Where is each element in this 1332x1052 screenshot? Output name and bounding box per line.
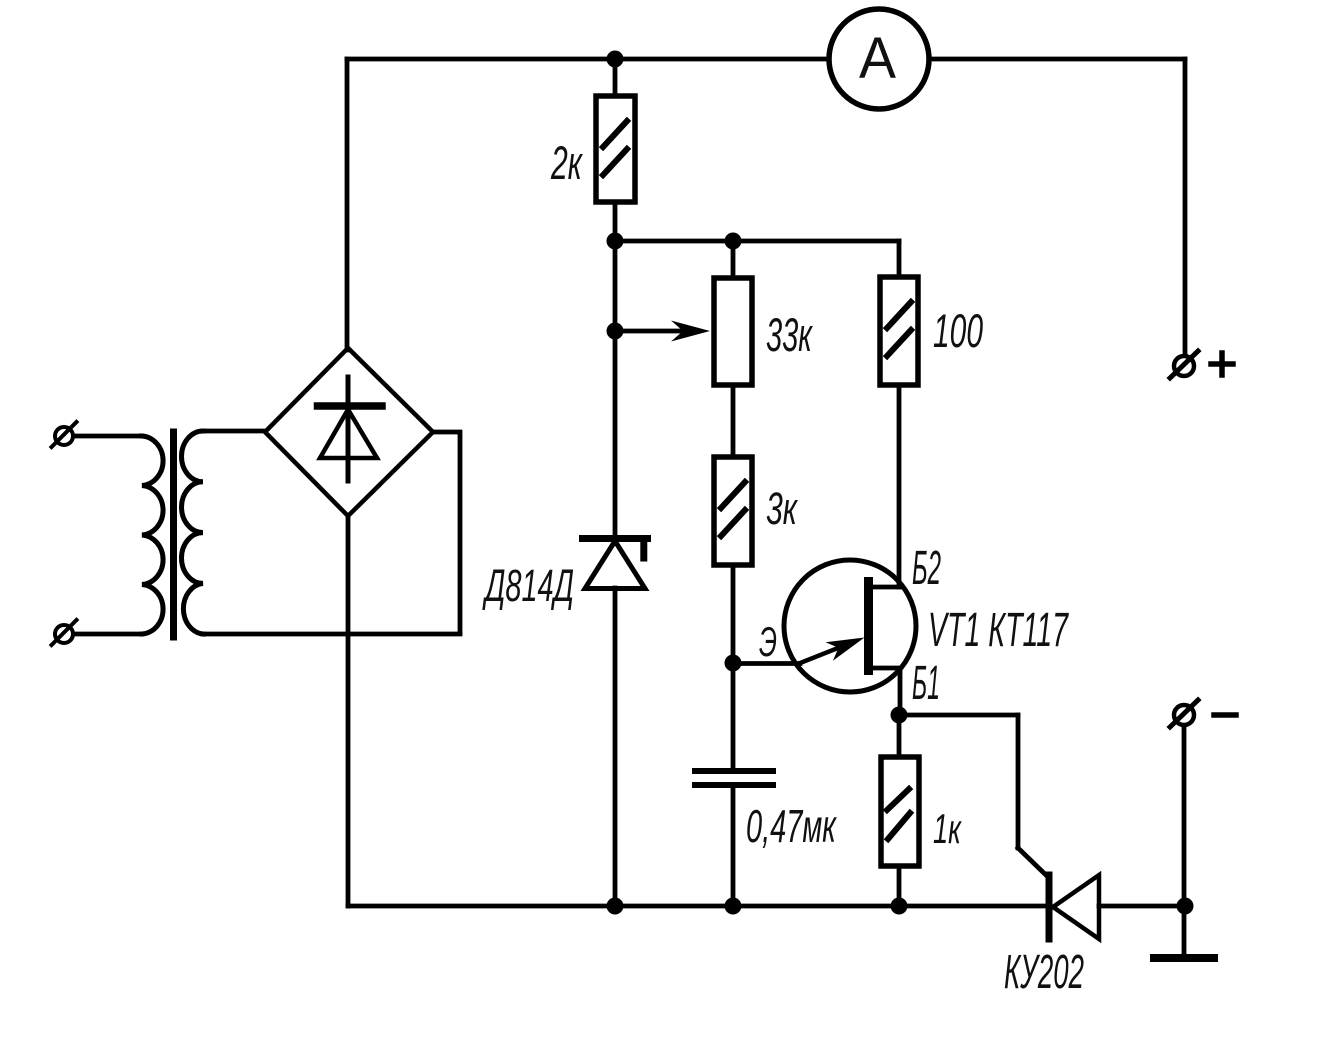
thyristor VS КУ202 <box>1049 875 1099 939</box>
capacitor C 0,47мк <box>695 663 773 906</box>
wire gate horizontal <box>899 713 1018 718</box>
wire top rail <box>347 57 1185 62</box>
wire secondary bottom <box>203 632 460 637</box>
transistor B1 lead <box>872 668 900 715</box>
svg-text:33к: 33к <box>766 308 813 361</box>
transformer T primary terminal top <box>52 422 77 447</box>
svg-text:VT1 КТ117: VT1 КТ117 <box>928 604 1069 657</box>
wire emitter horizontal <box>733 661 800 666</box>
svg-text:Б1: Б1 <box>912 657 940 710</box>
junction node (615,241) <box>607 233 624 250</box>
resistor 3к <box>714 457 752 565</box>
wire left vertical (top rail to bridge top) <box>345 59 350 350</box>
junction node (899,715) <box>891 707 908 724</box>
wire wiper arrow <box>615 321 710 342</box>
transformer primary winding <box>142 436 163 634</box>
wire gate vertical <box>1016 715 1021 848</box>
wire 3k to emitter node <box>731 565 736 663</box>
wire bottom rail left <box>348 904 1047 909</box>
wire bus y=241 <box>615 239 899 244</box>
svg-text:3к: 3к <box>766 483 798 534</box>
resistor 1к <box>881 757 919 866</box>
bridge internal diode <box>318 377 383 481</box>
wire terminal top to primary <box>75 434 142 439</box>
potentiometer R 33к <box>714 278 752 385</box>
wire bottom rail right <box>1099 904 1185 909</box>
wire 2k top lead <box>613 59 618 96</box>
junction node (615,59) <box>607 51 624 68</box>
transistor VT1 circle <box>784 560 916 692</box>
wire zener vertical <box>613 241 618 537</box>
svg-text:2к: 2к <box>550 136 583 189</box>
terminal - <box>1170 700 1236 727</box>
zener diode VD Д814Д <box>583 539 648 589</box>
wire bus corner to 100 <box>897 241 902 277</box>
wire bridge bottom to rail <box>346 516 351 906</box>
wire pot top lead <box>731 241 736 278</box>
wire gate diagonal <box>1018 848 1047 876</box>
junction node (615,906) <box>607 898 624 915</box>
transformer core <box>170 432 177 637</box>
svg-text:0,47мк: 0,47мк <box>746 800 837 852</box>
ammeter U A <box>829 9 929 109</box>
wire 1k to rail <box>897 866 902 906</box>
svg-text:A: A <box>859 26 896 91</box>
wire - terminal to rail <box>1182 727 1187 906</box>
junction node Э (733,663) <box>725 655 742 672</box>
wire zener to bottom rail <box>613 588 618 906</box>
ground <box>1154 906 1214 958</box>
svg-text:Б2: Б2 <box>912 542 941 595</box>
wire B1 node to 1k <box>897 715 902 757</box>
svg-text:100: 100 <box>933 304 983 357</box>
transformer T primary terminal bottom <box>52 620 77 645</box>
svg-text:КУ202: КУ202 <box>1004 946 1084 999</box>
junction node (733,241) <box>725 233 742 250</box>
wire right vertical (top rail to + terminal) <box>1183 59 1188 353</box>
svg-text:Э: Э <box>759 618 777 665</box>
wire secondary top to bridge <box>203 429 265 434</box>
junction node (615,331) <box>607 323 624 340</box>
wire 2k bottom lead <box>613 202 618 241</box>
wire bridge right vertex loop <box>433 432 460 633</box>
bridge rectifier VD diamond <box>265 348 433 516</box>
svg-text:1к: 1к <box>933 805 962 852</box>
transistor emitter lead with arrow <box>799 638 865 664</box>
svg-text:Д814Д: Д814Д <box>482 560 574 611</box>
wire pot to 3k <box>731 385 736 457</box>
wire 100 to B2 <box>897 385 902 587</box>
wire terminal bottom to primary <box>75 632 142 637</box>
resistor 100 <box>880 277 918 385</box>
resistor 2к <box>596 96 635 202</box>
junction node (1185,906) <box>1177 898 1194 915</box>
junction node (733,906) <box>725 898 742 915</box>
junction node (899,906) <box>891 898 908 915</box>
transistor B2 lead <box>872 585 900 590</box>
transformer secondary winding <box>181 431 203 634</box>
transistor base bar <box>864 577 873 675</box>
terminal + <box>1170 351 1233 378</box>
